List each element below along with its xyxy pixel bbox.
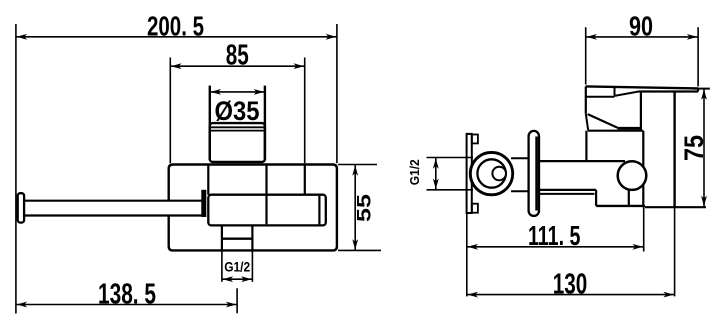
wall bracket bottom line: [596, 205, 645, 207]
body left slant edge: [586, 114, 588, 131]
dimension 138.5 right arrow: [226, 302, 237, 308]
dimension 130 right extension line: [674, 207, 676, 296]
wall plate strip: [467, 134, 472, 213]
dimension 90 left extension line: [585, 27, 587, 84]
dimension 75 top extension tick: [693, 88, 710, 90]
body top line: [588, 130, 643, 132]
connector pipe top line: [539, 160, 625, 162]
cartridge handle body: [210, 123, 265, 162]
G1/2 outlet right arrow: [241, 276, 252, 282]
inlet nipple bottom line: [511, 190, 530, 192]
dimension 130 right arrow: [663, 292, 674, 298]
G1/2 inlet bottom extension line: [427, 189, 474, 191]
dimension 85 left extension line: [169, 58, 171, 164]
outlet stub left edge: [221, 225, 223, 250]
internal edge right of housing: [304, 166, 306, 195]
connector pipe bottom line: [539, 189, 596, 191]
dimension 55 top extension tick: [338, 164, 377, 166]
cap right edge: [640, 92, 642, 131]
outlet centre extension line: [236, 288, 238, 313]
dimension 55 top arrow: [352, 165, 358, 176]
spout boss block: [208, 195, 325, 226]
wall bracket right bottom line / 75 extension: [645, 206, 706, 208]
inlet union inner circle: [477, 159, 505, 187]
dimension 55 bottom extension tick: [338, 249, 381, 251]
body rear right edge: [673, 92, 675, 208]
handle lever right end edge: [697, 88, 699, 91]
dimension 111.5 / 130 left extension line: [466, 213, 468, 296]
wall plate top tab: [472, 135, 478, 144]
G1/2 outlet left arrow: [223, 276, 234, 282]
handle lever wedge left edge: [614, 87, 616, 96]
body left upper edge: [585, 86, 587, 113]
dimension 200.5 line: [16, 36, 337, 38]
svg-text:111. 5: 111. 5: [528, 220, 581, 251]
handle lever underside: [639, 90, 699, 92]
dimension 75 top arrow: [701, 89, 707, 100]
spout boss inner edge: [318, 196, 320, 225]
body bevel diagonal: [588, 114, 618, 128]
valve housing left edge: [207, 166, 209, 195]
body right edge: [642, 131, 644, 208]
dimension 111.5 left arrow: [468, 244, 479, 250]
G1/2 outlet left extension line: [221, 250, 223, 281]
cartridge cap groove line 2: [211, 130, 264, 132]
escutcheon disc: [529, 131, 539, 216]
cartridge handle left side / extension line: [209, 86, 211, 161]
svg-text:200. 5: 200. 5: [147, 10, 204, 41]
inlet nipple top line: [511, 157, 530, 159]
spout end cap: [18, 193, 24, 222]
inlet union notch circle: [492, 167, 506, 181]
dimension 75 bottom arrow: [701, 196, 707, 207]
body chrome band line: [617, 127, 641, 130]
dimension 90 right extension line: [697, 27, 699, 86]
dimension 200.5 left arrow: [17, 34, 28, 40]
dimension O35 right arrow: [254, 89, 265, 95]
dimension 55 bottom arrow: [352, 239, 358, 250]
outlet stub nut line: [222, 237, 253, 239]
left extension line (shared by 200.5 and 138.5 dims): [15, 24, 17, 314]
cartridge cap groove line 1: [211, 126, 264, 128]
G1/2 inlet top extension line: [427, 157, 474, 159]
dimension 130 line: [467, 294, 675, 296]
dimension 90 left arrow: [586, 34, 597, 40]
handle lever wedge diagonal: [615, 92, 639, 96]
cartridge cap top line: [586, 96, 615, 98]
svg-text:130: 130: [553, 269, 588, 301]
dimension O35 left arrow: [211, 89, 222, 95]
dimension 85 left arrow: [171, 63, 182, 69]
body front edge: [585, 131, 587, 161]
svg-text:90: 90: [629, 10, 653, 41]
spout pipe bottom line: [24, 214, 202, 216]
escutcheon disc right face: [535, 137, 538, 211]
dimension 200.5 right arrow: [326, 34, 337, 40]
svg-text:Ø35: Ø35: [215, 96, 260, 126]
G1/2 inlet dimension line: [435, 158, 437, 190]
dimension 85 right arrow: [294, 63, 305, 69]
svg-text:55: 55: [353, 194, 375, 222]
G1/2 outlet dimension line: [222, 278, 253, 280]
dimension 130 left arrow: [468, 292, 479, 298]
G1/2 inlet bottom arrow: [433, 179, 439, 190]
main body plate: [169, 165, 337, 251]
svg-text:85: 85: [226, 40, 249, 72]
svg-text:138. 5: 138. 5: [98, 278, 156, 310]
handle lever top line: [586, 86, 698, 88]
spout pipe top line: [24, 200, 202, 202]
wall bracket left edge: [595, 190, 597, 206]
dimension 200.5 right extension line: [336, 24, 338, 163]
dimension 75 line: [703, 89, 705, 207]
dimension 138.5 left arrow: [17, 302, 28, 308]
wall bracket inner edge: [628, 190, 630, 206]
cartridge handle right side / extension line: [264, 86, 266, 161]
dimension 90 line: [586, 36, 698, 38]
inlet union outer circle: [470, 152, 512, 194]
dimension 111.5 line: [467, 246, 644, 248]
connector pipe lower flange line: [539, 193, 595, 195]
dimension 138.5 line: [16, 304, 237, 306]
G1/2 outlet right extension line: [251, 250, 253, 281]
dimension 111.5 right arrow: [633, 244, 644, 250]
svg-text:G1/2: G1/2: [224, 259, 250, 275]
G1/2 inlet top arrow: [433, 158, 439, 169]
svg-text:G1/2: G1/2: [407, 159, 422, 185]
dimension 85 right extension line: [304, 58, 306, 164]
dimension 55 line: [354, 165, 356, 251]
outlet stub right edge: [251, 225, 253, 250]
spout cross-section circle: [618, 161, 647, 190]
dimension 85 line: [170, 65, 304, 67]
dimension 111.5 right extension line: [643, 207, 645, 251]
dimension O35 line: [210, 91, 265, 93]
svg-text:75: 75: [679, 135, 709, 161]
dimension 90 right arrow: [687, 34, 698, 40]
spout flange bar: [201, 190, 206, 217]
wall plate bottom tab: [472, 204, 478, 213]
valve housing right edge: [265, 166, 267, 225]
